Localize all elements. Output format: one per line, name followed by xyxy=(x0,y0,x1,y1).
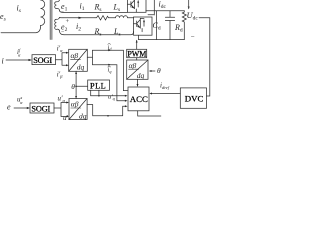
svg-text:dq: dq xyxy=(137,71,145,80)
label theta xyxy=(71,82,75,91)
svg-text:dq: dq xyxy=(77,63,85,72)
secondary winding 1 (e1) xyxy=(55,0,60,10)
svg-text:e: e xyxy=(7,103,11,112)
wire dc bottom bus xyxy=(139,39,185,41)
capacitor Cd xyxy=(165,11,174,40)
svg-text:PLL: PLL xyxy=(90,82,106,91)
resistor Rs loop2 xyxy=(95,16,116,20)
wire arrow e to SOGI2 xyxy=(14,107,28,109)
ACC block xyxy=(128,87,149,111)
label Ls loop1 xyxy=(113,3,121,14)
wire converter2 bottom stub xyxy=(138,35,140,39)
label Rs loop1 xyxy=(94,3,102,14)
label Udc xyxy=(187,10,199,22)
wire Udc sense to DVC xyxy=(199,18,210,96)
label iq xyxy=(108,66,112,74)
label idc xyxy=(159,0,167,10)
wire PWM to converter xyxy=(136,40,138,49)
label Cd xyxy=(153,21,161,32)
IGBT symbol converter 2 xyxy=(134,18,145,31)
wire idref DVC to ACC xyxy=(151,93,180,95)
primary winding coil xyxy=(41,0,45,26)
svg-text:+: + xyxy=(66,18,70,25)
wire SOGI2 output split xyxy=(54,103,67,117)
label Ls loop2 xyxy=(113,27,121,38)
inductor Ls loop2 xyxy=(116,16,128,18)
label i1 xyxy=(80,2,85,13)
label e_s xyxy=(0,12,6,23)
label plus e2 xyxy=(66,18,70,25)
svg-text:αβ: αβ xyxy=(129,61,137,70)
wire id rail xyxy=(93,50,128,90)
label e1 xyxy=(61,2,68,13)
wire theta to PLL xyxy=(76,85,88,87)
arrow i2 on wire xyxy=(79,17,83,19)
wire SOGI1 output split xyxy=(56,53,68,65)
wire iq rail xyxy=(93,65,126,101)
wire arrow i to SOGI1 xyxy=(6,59,30,61)
wire theta vertical xyxy=(75,71,77,98)
SOGI block 1 xyxy=(32,55,56,65)
label i2 xyxy=(76,22,81,33)
label u'q xyxy=(108,94,115,101)
transformer core xyxy=(50,0,52,40)
wire dc vertical from top xyxy=(148,0,154,15)
wire loop2 top xyxy=(63,17,95,19)
node theta junction xyxy=(75,86,77,88)
transform block 3 (voltage ab/dq) xyxy=(69,99,87,120)
svg-text:−: − xyxy=(191,33,195,41)
IGBT symbol converter 1 xyxy=(128,0,139,12)
svg-text:i: i xyxy=(2,57,4,66)
wire loop2 return xyxy=(64,32,134,35)
svg-text:θ: θ xyxy=(157,66,161,75)
label u'_alpha xyxy=(58,95,66,104)
SOGI block 2 xyxy=(30,103,54,113)
svg-text:SOGI: SOGI xyxy=(33,56,52,65)
wire dc link vertical xyxy=(156,11,158,40)
svg-text:θ: θ xyxy=(71,82,75,91)
label id xyxy=(108,44,113,52)
PLL block xyxy=(88,80,110,90)
node bus junction xyxy=(107,115,109,117)
wire winding1 return lead xyxy=(60,10,64,12)
wire transform1 output split xyxy=(87,50,92,64)
svg-text:SOGI: SOGI xyxy=(31,104,50,113)
resistor Rd xyxy=(182,11,186,40)
arrow Udc plus lead xyxy=(188,0,190,9)
converter box 2 xyxy=(134,17,153,35)
secondary winding 2 (e2) xyxy=(55,18,60,31)
svg-text:DVC: DVC xyxy=(185,93,204,103)
svg-text:αβ: αβ xyxy=(71,100,79,109)
wire into converter 2 xyxy=(128,17,134,19)
wire ACC bottom stub xyxy=(138,111,161,116)
node PLL junction xyxy=(98,95,100,97)
wire primary bottom lead xyxy=(1,26,41,33)
label theta right xyxy=(157,66,161,75)
label Rs loop2 xyxy=(94,27,102,38)
wire PWM input pin xyxy=(136,58,138,60)
label idref xyxy=(160,82,170,91)
wire loop1 return xyxy=(63,11,128,13)
label Rd xyxy=(174,23,183,34)
wire uq rail into ACC xyxy=(91,95,126,97)
label i_alpha^f xyxy=(17,48,21,58)
label e2 xyxy=(61,23,68,34)
PWM block xyxy=(127,49,147,57)
label minus e2 xyxy=(61,30,65,36)
wire winding2 bottom lead xyxy=(60,31,65,35)
label minus Udc xyxy=(191,33,195,41)
transform block 2 (dq to ab) xyxy=(127,60,148,79)
wire transform2 bottom pin xyxy=(137,79,139,86)
label i'_beta xyxy=(57,71,63,80)
label i_s xyxy=(17,4,21,15)
label i input xyxy=(2,57,4,66)
DVC block xyxy=(180,88,206,108)
wire transform3 top output xyxy=(87,104,93,106)
label i'_alpha xyxy=(57,45,63,54)
wire winding2 top lead xyxy=(60,17,64,19)
wire dc top bus xyxy=(146,10,185,12)
label minus e1 xyxy=(61,9,65,15)
svg-text:αβ: αβ xyxy=(71,51,79,60)
wire PLL input pins xyxy=(91,90,99,95)
svg-text:ACC: ACC xyxy=(130,94,148,104)
label e input xyxy=(7,103,11,112)
label u'_beta xyxy=(63,114,71,123)
transform block 1 (current abc/dq) xyxy=(69,49,88,71)
svg-text:dq: dq xyxy=(79,112,87,120)
wire ud from bus into ACC xyxy=(93,105,126,116)
wire theta into transform2 xyxy=(151,70,156,72)
label u_alpha^s xyxy=(17,95,23,105)
converter box 1 xyxy=(128,0,147,12)
